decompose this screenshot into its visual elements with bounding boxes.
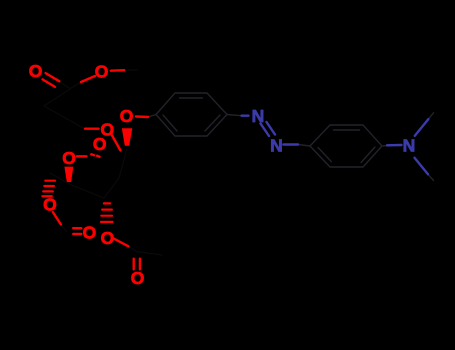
bond N3-CH3 down blue half	[415, 158, 429, 175]
bond C6=O carbonyl double (red halves)	[43, 73, 60, 87]
wedge C1 to glycosidic O	[122, 128, 133, 146]
svg-text:O: O	[62, 148, 76, 168]
svg-text:O: O	[83, 222, 97, 242]
svg-text:N: N	[403, 135, 416, 155]
svg-text:O: O	[95, 61, 109, 81]
hashed wedge C4 to acetate O (left)	[42, 181, 55, 197]
bond O2'-C2 dashes	[77, 154, 100, 157]
benzene ring 2 (azo right phenyl)	[310, 125, 382, 167]
svg-text:O: O	[131, 268, 145, 288]
bond ester O-C6 red half	[81, 76, 95, 82]
bond ring O5-C1 red half	[112, 135, 121, 151]
bond ester O-CH3 red half	[111, 69, 124, 72]
benzene ring 1 inner double bonds	[163, 98, 220, 131]
wire dark halves aromatic/amine bonds	[227, 113, 434, 181]
hashed wedge C3 to acetate-B O	[101, 203, 113, 222]
svg-text:O: O	[29, 61, 43, 81]
wire carbon skeleton of ester and sugar (dark halves)	[44, 70, 162, 255]
svg-text:N: N	[252, 106, 265, 126]
bond N1=N2 azo double	[261, 122, 276, 136]
bond glycosidic O-phenyl red half	[136, 115, 148, 118]
bond acetate-A C=O double red halves	[73, 228, 81, 234]
bond acetate-B C=O double red halves	[134, 259, 140, 270]
svg-text:O: O	[93, 134, 107, 154]
bond N2-phenyl blue half	[283, 143, 298, 145]
bond phenyl-N1 blue half	[242, 114, 249, 116]
bond phenyl-N3 blue half	[387, 144, 402, 147]
svg-text:N: N	[270, 135, 283, 155]
svg-text:O: O	[120, 106, 134, 126]
bond acetate-A O to carbonyl C red half	[53, 212, 61, 224]
svg-text:O: O	[43, 195, 57, 215]
wedge C4 to O4'	[64, 167, 73, 182]
svg-text:O: O	[101, 228, 115, 248]
bond N3-CH3 up blue half	[415, 119, 429, 136]
bond acetate-B O to carbonyl C red half	[113, 238, 128, 246]
bond ring O5-C5 red half	[85, 127, 99, 129]
benzene ring 2 inner double bonds	[318, 130, 375, 163]
benzene ring 1 (azo left phenyl)	[156, 93, 227, 136]
